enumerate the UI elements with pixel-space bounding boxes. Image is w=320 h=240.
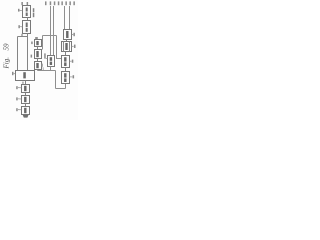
block D1: [22, 85, 30, 93]
text inside R3: [64, 73, 66, 82]
wire D1 to D2: [25, 93, 27, 96]
text inside R2: [64, 57, 66, 66]
signal wire x64.5 to R0: [64, 6, 66, 30]
text inside C1: [36, 41, 38, 45]
label 2 at top (x50): [50, 1, 52, 5]
horizontal wire y35.5: [43, 35, 57, 37]
lead to CB: [46, 58, 48, 60]
wire left branch down to W: [17, 37, 19, 71]
wire R0 to R1: [66, 40, 68, 42]
wire right branch down to W: [27, 37, 29, 71]
bus down right side: [55, 71, 57, 89]
wire C1 to C2: [37, 47, 39, 50]
bus up to R3: [65, 84, 67, 89]
signal wire x50 down to CB: [50, 6, 52, 56]
block D3: [22, 107, 30, 115]
block B1: [23, 6, 31, 18]
bus bottom horizontal: [56, 88, 66, 90]
wire CB bottom to bus: [50, 67, 52, 71]
label above bus: [41, 64, 43, 67]
label right of R3: [73, 75, 75, 78]
lead to R0: [72, 33, 74, 35]
lead from label a1 to B1 top: [22, 5, 23, 6]
signal wire x53 down to CB: [53, 6, 55, 56]
label 1 at top (x45): [45, 1, 47, 5]
label 3 at top (x54): [54, 1, 56, 5]
wire x56.5 down then left into R2: [57, 36, 62, 59]
block C2: [35, 50, 42, 59]
text inside R1: [65, 43, 67, 50]
text inside C2: [36, 51, 38, 57]
label 6 at top right (x65): [65, 1, 67, 5]
block C3: [35, 62, 42, 70]
label at W output: [22, 82, 23, 84]
label left of B2: [18, 25, 20, 28]
label left of D2: [16, 97, 18, 100]
text inside D1: [24, 86, 26, 91]
lead to R1: [72, 45, 74, 47]
block R0: [64, 30, 72, 40]
block B2: [23, 21, 31, 34]
label 7 at top right (x69): [69, 1, 71, 5]
text inside D3: [24, 108, 26, 113]
lead from left label to B1: [20, 9, 23, 11]
label a2 above block B1: [27, 2, 29, 5]
label a1 above block B1: [21, 2, 23, 5]
wire B2 down to junction: [27, 34, 29, 37]
wire B1 to B2: [27, 18, 29, 21]
label 8 at top right (x73): [73, 1, 75, 5]
block CB: [48, 56, 55, 67]
text inside R0: [66, 31, 68, 38]
wire R1 to R2: [65, 52, 67, 56]
output marker below D3: [23, 115, 29, 118]
wire W to D1: [25, 81, 27, 85]
lead to R3: [70, 76, 73, 78]
block R1: [62, 42, 72, 52]
lead to D3: [18, 109, 22, 111]
inner bar left R1: [63, 42, 65, 52]
text inside C3: [36, 63, 38, 68]
label left of D3: [16, 108, 18, 111]
label left of D1: [16, 86, 18, 89]
block R2: [62, 56, 70, 68]
lead to D1: [18, 87, 22, 89]
text inside W: [23, 72, 26, 78]
label right of R1: [74, 45, 76, 48]
wire C2 to C3: [37, 59, 39, 62]
label above C1: [35, 37, 38, 39]
rotated numeral right of B1: [33, 8, 35, 17]
text inside B2: [26, 23, 28, 32]
label left of C2: [31, 55, 32, 58]
return bus horizontal: [38, 70, 56, 72]
label at B2 output: [21, 34, 22, 36]
wire D2 to D3: [25, 104, 27, 107]
wide block W: [16, 71, 35, 81]
label right of R0: [73, 33, 75, 36]
svg-text:Fig.: Fig.: [3, 57, 11, 70]
label left of CB: [44, 53, 46, 58]
text inside D2: [24, 97, 26, 102]
wire C3 down to bus: [37, 70, 39, 71]
svg-text:59: 59: [3, 43, 11, 51]
wire x42.5 down to C2: [42, 36, 44, 50]
lead to R2: [70, 60, 72, 62]
wire R2 to R3: [65, 68, 67, 72]
signal wire x69.5 to R0: [69, 6, 71, 30]
lead to D2: [18, 98, 22, 100]
lead from label to bus: [42, 67, 44, 70]
lead from label to B2: [20, 26, 22, 28]
text inside CB: [50, 57, 52, 65]
lead from label a2 to B1 top: [26, 5, 29, 6]
label left of B1: [18, 9, 20, 12]
label 4 at top (x58): [58, 1, 60, 5]
label 5 at top right (x62): [61, 1, 63, 5]
junction bar: [18, 36, 28, 38]
lead to W: [14, 73, 16, 75]
label left of W: [12, 72, 14, 75]
block R3: [62, 72, 70, 84]
inner bar right R1: [69, 42, 71, 52]
block C1: [35, 40, 42, 47]
label right of R2: [72, 60, 74, 63]
label left of C1: [31, 42, 33, 45]
text inside B1: [26, 8, 28, 17]
block D2: [22, 96, 30, 104]
